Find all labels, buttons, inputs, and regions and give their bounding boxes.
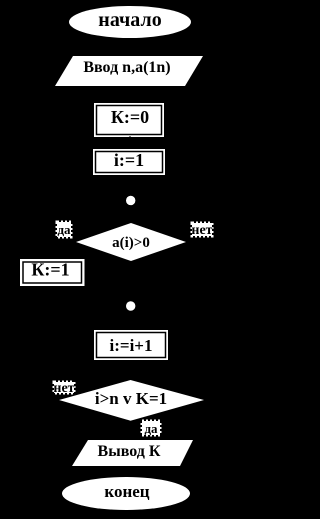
branch label да (yes, below diamond 2): [142, 421, 160, 435]
svg-text:a(i)>0: a(i)>0: [112, 235, 150, 251]
io parallelogram Ввод n,a(1n): [55, 56, 203, 86]
svg-text:нет: нет: [191, 223, 212, 238]
terminator ellipse конец: [62, 477, 190, 510]
svg-text:да: да: [144, 421, 158, 436]
svg-text:да: да: [57, 222, 71, 237]
branch label нет (no, right of diamond 1): [192, 223, 212, 236]
svg-text:конец: конец: [104, 482, 149, 501]
branch label нет (no, left of diamond 2): [54, 382, 74, 393]
terminator ellipse начало: [69, 6, 191, 38]
wire from dot 2 to i:=i+1 (black, invisible): [129, 311, 131, 330]
junction dot 2: [126, 301, 135, 310]
wire from начало to Ввод (black, invisible): [129, 38, 131, 56]
decision diamond a(i)>0: [76, 223, 186, 261]
wire from dot 1 to diamond a(i)>0 (black, invisible): [129, 205, 131, 223]
svg-text:начало: начало: [98, 9, 161, 31]
svg-text:i:=i+1: i:=i+1: [110, 336, 153, 355]
wire from i:=1 to junction dot 1 (black, invisible): [129, 175, 131, 196]
branch label да (yes, left of diamond 1): [57, 222, 71, 237]
process box K:=0: [94, 103, 164, 137]
process box i:=1: [93, 149, 165, 175]
io parallelogram Вывод K: [72, 440, 193, 466]
svg-text:Вывод К: Вывод К: [98, 443, 161, 460]
process box K:=1 (yes branch): [20, 259, 85, 286]
wire from i:=i+1 to diamond 2 (black, invisible): [129, 360, 131, 380]
svg-text:i>n v K=1: i>n v K=1: [95, 389, 167, 408]
svg-text:i:=1: i:=1: [114, 150, 144, 170]
svg-text:К:=1: К:=1: [31, 260, 69, 280]
svg-text:К:=0: К:=0: [111, 107, 149, 127]
decision diamond i>n v K=1: [59, 380, 204, 421]
wire from K:=0 to i:=1 (black, invisible): [129, 136, 131, 149]
svg-text:Ввод n,a(1n): Ввод n,a(1n): [83, 59, 170, 76]
svg-text:нет: нет: [53, 381, 74, 396]
process box i:=i+1: [94, 330, 168, 360]
wire from Ввод to K:=0 (black, invisible): [129, 86, 131, 103]
junction dot 1: [126, 196, 135, 205]
